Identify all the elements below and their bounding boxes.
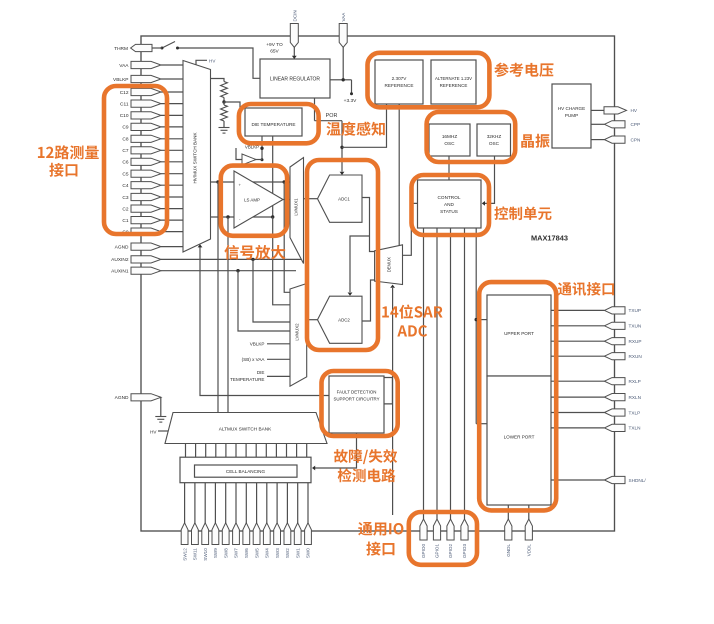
svg-text:32KHZ: 32KHZ: [487, 134, 502, 139]
wire buffer output: [256, 159, 262, 161]
svg-text:C2: C2: [122, 206, 128, 212]
pin CPP: [604, 121, 625, 128]
pin VDDL: [525, 519, 532, 540]
svg-text:+9V TO: +9V TO: [266, 42, 283, 48]
op-amp LS AMP: [234, 171, 283, 228]
pin DCIN: [290, 24, 298, 48]
svg-text:HV CHARGE: HV CHARGE: [558, 106, 585, 111]
wire DEMUX output to control: [403, 203, 418, 255]
wire tap to die temperature block: [224, 102, 240, 108]
block CELL BALANCING (outer): [180, 457, 311, 483]
block DIE TEMPERATURE: [245, 108, 302, 136]
label communication interface: [558, 282, 614, 296]
highlight communication ports: [479, 282, 556, 510]
pin SW3: [274, 523, 281, 545]
svg-text:OSC: OSC: [489, 141, 500, 146]
wire C10 to switch bank: [161, 114, 183, 116]
wire C6 to switch bank: [161, 161, 183, 163]
svg-text:THRM: THRM: [114, 46, 128, 52]
pin TXUP: [604, 307, 625, 314]
highlight die temperature: [239, 104, 319, 143]
linear regulator U2: [260, 59, 330, 98]
svg-text:TXLN: TXLN: [629, 426, 641, 431]
pin TXLN: [604, 424, 625, 431]
wire VBLKP input to LVMUX2: [267, 343, 290, 345]
wire control to GPIO1: [436, 228, 438, 519]
svg-text:SW7: SW7: [234, 548, 239, 558]
wire AUXIN1 to LVMUX: [161, 270, 296, 272]
wire ADC1 output to DEMUX: [362, 198, 375, 252]
svg-text:ALTMUX SWITCH BANK: ALTMUX SWITCH BANK: [219, 427, 272, 432]
pin VAA (top): [339, 24, 347, 48]
pin AGND: [131, 243, 161, 250]
wire VBLKP buffer rail: [261, 136, 263, 160]
label reference voltage: [494, 63, 553, 77]
wire LS amp output: [283, 199, 290, 201]
svg-text:C12: C12: [120, 90, 129, 96]
block CONTROL AND STATUS: [418, 180, 482, 228]
svg-text:SW9: SW9: [213, 548, 218, 558]
svg-text:PUMP: PUMP: [565, 113, 578, 118]
pin CPN: [604, 136, 625, 143]
pin GPIO1: [433, 519, 440, 540]
wire rail to ALTMUX bank (from + input): [217, 182, 219, 413]
label 14-bit SAR ADC: [382, 305, 442, 319]
wire THRM switch to linear regulator: [178, 48, 261, 78]
wire LVMUX1 to ADC1: [304, 198, 318, 200]
pin HV: [604, 107, 627, 114]
svg-text:(SB) x VAA: (SB) x VAA: [242, 357, 266, 362]
svg-text:LVMUX1: LVMUX1: [294, 198, 299, 216]
node ports rail junction: [475, 318, 478, 321]
wire C3 to switch bank: [161, 196, 183, 198]
wire 16MHz osc to control: [448, 156, 450, 180]
pin VAA top wire: [342, 47, 344, 80]
svg-text:C6: C6: [122, 160, 128, 166]
wire lower port to GNDL: [507, 505, 509, 519]
svg-text:TXUP: TXUP: [629, 308, 642, 313]
highlight fault detection: [322, 371, 398, 436]
svg-text:HV/MUX SWITCH BANK: HV/MUX SWITCH BANK: [193, 132, 198, 184]
pin C5: [131, 170, 161, 177]
wire lower port to VDDL: [528, 505, 530, 519]
wire port to TXLN: [551, 427, 604, 429]
svg-text:VDDL: VDDL: [526, 544, 531, 557]
svg-text:HV: HV: [209, 58, 216, 63]
svg-text:C3: C3: [122, 195, 128, 201]
label general IO interface: [358, 522, 403, 536]
svg-text:C8: C8: [122, 137, 128, 143]
adc ADC2: [318, 296, 363, 343]
svg-text:C5: C5: [122, 172, 128, 178]
pin SW10: [202, 523, 209, 545]
wire die temperature output rail: [272, 136, 274, 217]
label fault detection circuit: [334, 449, 397, 464]
svg-text:VBLKP: VBLKP: [250, 341, 265, 346]
pin AUXIN1: [131, 267, 161, 274]
svg-text:HV: HV: [631, 108, 638, 113]
pin C12: [131, 88, 161, 95]
wire port to TXUN: [551, 325, 604, 327]
svg-text:+3.3V: +3.3V: [344, 98, 357, 104]
wire branch to ADC2 input arrow: [350, 236, 370, 292]
svg-text:16MHZ: 16MHZ: [442, 134, 458, 139]
wire reference rail to DEMUX: [398, 104, 400, 245]
label control unit: [494, 206, 551, 220]
svg-text:REFERENCE: REFERENCE: [385, 83, 414, 88]
wire fault feedback to switch bank with up arrow: [200, 246, 329, 396]
svg-text:C11: C11: [120, 101, 129, 107]
svg-text:AGND: AGND: [115, 395, 129, 401]
pin DCIN wire with arrow into regulator: [293, 47, 295, 59]
svg-text:RXUP: RXUP: [629, 339, 642, 344]
svg-text:ADC2: ADC2: [338, 318, 350, 323]
pin RXUN: [604, 353, 625, 360]
svg-text:GNDL: GNDL: [506, 544, 511, 557]
svg-text:SW6: SW6: [244, 548, 249, 558]
label 12-channel measurement interface: [38, 145, 99, 159]
svg-text:STATUS: STATUS: [440, 209, 458, 214]
pin SW11: [192, 523, 199, 545]
svg-text:GPIO2: GPIO2: [448, 544, 453, 558]
highlight references: [368, 53, 490, 108]
node AUXIN2 branch: [251, 258, 254, 261]
svg-text:ALTERNATE 1.23V: ALTERNATE 1.23V: [435, 76, 472, 81]
wire C12 to switch bank: [161, 91, 183, 93]
wire LVMUX2 to ADC2: [307, 319, 318, 321]
wire AUXIN2 to LVMUX: [161, 258, 301, 260]
wire port to TXUP: [551, 309, 604, 311]
svg-text:GPIO0: GPIO0: [421, 544, 426, 558]
wire port to RXUN: [551, 355, 604, 357]
pin C8: [131, 135, 161, 142]
pin C2: [131, 205, 161, 212]
wire ADC2 output to DEMUX: [362, 280, 375, 321]
wire fault block right loop: [384, 378, 392, 404]
wire control to GPIO2: [450, 228, 452, 519]
svg-text:2.307V: 2.307V: [392, 76, 408, 81]
svg-text:VAA: VAA: [341, 12, 346, 22]
svg-text:REFERENCE: REFERENCE: [440, 83, 468, 88]
wire C11 to switch bank: [161, 103, 183, 105]
block HV CHARGE PUMP: [552, 84, 591, 148]
mux LVMUX1: [290, 158, 304, 264]
svg-text:CPN: CPN: [631, 137, 641, 142]
svg-text:DEMUX: DEMUX: [386, 257, 391, 272]
svg-text:C9: C9: [122, 125, 128, 131]
wire control to GPIO3: [464, 228, 466, 519]
svg-text:TXLP: TXLP: [629, 410, 641, 415]
adc ADC1: [318, 175, 363, 222]
svg-text:CELL BALANCING: CELL BALANCING: [226, 469, 266, 474]
pin C4: [131, 182, 161, 189]
svg-text:C10: C10: [120, 113, 129, 119]
wire buffer input: [236, 148, 242, 160]
chip boundary MAX17843: [141, 36, 615, 531]
svg-text:DIE TEMPERATURE: DIE TEMPERATURE: [251, 122, 295, 127]
wire port to SHDNL/: [551, 479, 604, 481]
wire C2 to switch bank: [161, 208, 183, 210]
wire rail to ALTMUX bank (from - input): [227, 217, 229, 413]
highlight control unit: [412, 175, 490, 235]
wire fault block to cell balancing with arrow: [315, 433, 357, 468]
block LOWER PORT: [487, 376, 551, 505]
mux DEMUX: [375, 245, 403, 285]
svg-text:MAX17843: MAX17843: [531, 234, 568, 243]
svg-text:RXUN: RXUN: [629, 354, 642, 359]
wire C5 to switch bank: [161, 173, 183, 175]
wire VBLKP to switch bank: [161, 78, 183, 80]
pin VAA: [131, 61, 161, 68]
reference block ALTERNATE 1.23V REFERENCE: [431, 60, 476, 104]
pin SW9: [212, 523, 219, 545]
svg-text:LINEAR REGULATOR: LINEAR REGULATOR: [270, 76, 320, 82]
svg-text:HV: HV: [150, 429, 157, 434]
label temperature sensing: [326, 122, 384, 136]
wire POR from regulator: [314, 98, 316, 121]
wire AGND to ground: [160, 397, 162, 416]
pin AUXIN2: [131, 256, 161, 263]
svg-text:FAULT DETECTION: FAULT DETECTION: [337, 389, 377, 394]
pin SW8: [222, 523, 229, 545]
wire AGND to switch bank: [161, 246, 183, 248]
wire C0 to switch bank: [161, 231, 183, 233]
wire regulator output +3.3V node: [330, 79, 343, 81]
wire charge pump to CPP pin: [591, 123, 604, 125]
svg-text:RXLP: RXLP: [629, 379, 641, 384]
pin SW6: [243, 523, 250, 545]
svg-text:DCIN: DCIN: [292, 10, 297, 21]
wire HV tab of switch bank: [196, 60, 207, 65]
block HV/MUX SWITCH BANK: [183, 61, 211, 253]
pin C10: [131, 112, 161, 119]
node resistor divider tap: [222, 100, 225, 103]
wire port to TXLP: [551, 412, 604, 414]
wire LS amp - input: [211, 216, 273, 218]
pin RXLN: [604, 394, 625, 401]
wire C1 to switch bank: [161, 219, 183, 221]
pin C3: [131, 193, 161, 200]
wire C7 to switch bank: [161, 149, 183, 151]
svg-text:SW3: SW3: [275, 548, 280, 558]
pin THRM: [131, 44, 152, 51]
highlight oscillators: [427, 112, 516, 162]
svg-text:CONTROL: CONTROL: [438, 195, 461, 200]
svg-text:SW4: SW4: [265, 548, 270, 558]
svg-text:DIE: DIE: [257, 370, 265, 375]
switch S1 on THRM line: [162, 42, 175, 49]
wire control to GPIO0: [423, 228, 425, 519]
svg-text:SW1: SW1: [295, 548, 300, 558]
resistor R1: [221, 82, 228, 98]
svg-text:GPIO3: GPIO3: [462, 544, 467, 558]
pin SW0: [305, 523, 312, 545]
label crystal oscillator: [521, 134, 549, 148]
svg-text:SW10: SW10: [203, 548, 208, 561]
wire charge pump to HV pin: [591, 109, 606, 111]
label signal amplification: [224, 245, 285, 260]
svg-text:AGND: AGND: [115, 244, 129, 250]
svg-text:SUPPORT CIRCUITRY: SUPPORT CIRCUITRY: [333, 396, 379, 401]
svg-text:LVMUX2: LVMUX2: [295, 323, 300, 341]
wire die temp rail into LVMUX2: [273, 217, 290, 305]
wire AUXIN1 branch into LVMUX2: [238, 271, 290, 331]
block FAULT DETECTION SUPPORT CIRCUITRY: [329, 376, 384, 433]
wire port to RXLP: [551, 380, 604, 382]
oscillator 32KHZ OSC: [477, 124, 511, 156]
svg-text:SW11: SW11: [193, 548, 198, 561]
svg-text:LS AMP: LS AMP: [244, 197, 260, 202]
block UPPER PORT: [487, 295, 551, 376]
wire control to ports rail: [475, 228, 477, 424]
wire DIE TEMPERATURE to LVMUX2: [267, 375, 290, 377]
pin C6: [131, 158, 161, 165]
svg-text:SW8: SW8: [223, 548, 228, 558]
highlight LS amp: [221, 166, 287, 236]
pin GPIO3: [461, 519, 468, 540]
wire C8 to switch bank: [161, 138, 183, 140]
svg-text:GPIO1: GPIO1: [435, 544, 440, 558]
pin C11: [131, 100, 161, 107]
pin C0: [131, 228, 161, 235]
wire C4 to switch bank: [161, 184, 183, 186]
pin SW1: [294, 523, 301, 545]
svg-text:SHDNL/: SHDNL/: [629, 478, 647, 483]
svg-text:AND: AND: [444, 202, 455, 207]
pin TXUN: [604, 322, 625, 329]
pin GNDL: [505, 519, 512, 540]
node AUXIN1 branch: [236, 269, 239, 272]
block ALTMUX SWITCH BANK: [165, 413, 327, 444]
pin SW7: [233, 523, 240, 545]
svg-text:UPPER PORT: UPPER PORT: [504, 331, 534, 336]
svg-text:TXUN: TXUN: [629, 324, 642, 329]
wire THRM to switch: [152, 47, 162, 49]
pin SW5: [253, 523, 260, 545]
pin RXLP: [604, 378, 625, 385]
svg-text:TEMPERATURE: TEMPERATURE: [230, 377, 264, 382]
pin C7: [131, 147, 161, 154]
wire port to RXLN: [551, 396, 604, 398]
svg-text:C7: C7: [122, 148, 128, 154]
svg-text:C4: C4: [122, 183, 128, 189]
pin AGND (lower): [131, 394, 161, 401]
wire port to RXUP: [551, 340, 604, 342]
wire rail to lower port: [476, 423, 487, 425]
wire AUXIN2 branch into LVMUX2: [253, 259, 290, 322]
svg-text:ADC1: ADC1: [338, 197, 350, 202]
ground (resistor divider): [219, 127, 230, 129]
ground (AGND): [155, 416, 166, 418]
svg-text:POR: POR: [326, 113, 338, 119]
highlight SAR ADC: [307, 160, 378, 350]
svg-text:SW2: SW2: [285, 548, 290, 558]
block CELL BALANCING (inner): [195, 465, 298, 477]
svg-text:OSC: OSC: [444, 141, 455, 146]
wire (SB) x VAA to LVMUX2: [267, 358, 290, 360]
wires ALTMUX to cell balancing (13): [185, 444, 187, 458]
pin SW2: [284, 523, 291, 545]
mux LVMUX2: [290, 284, 307, 387]
resistor R2: [223, 102, 225, 105]
svg-text:65V: 65V: [270, 49, 279, 55]
wire bank to resistor divider: [211, 79, 225, 82]
svg-text:VBLKP: VBLKP: [113, 77, 128, 83]
svg-text:VAA: VAA: [119, 63, 129, 69]
wire amp crossing rail into LVMUX2: [284, 182, 290, 292]
wire HV stub to ALTMUX: [158, 430, 169, 432]
buffer amplifier A2: [242, 154, 256, 165]
highlight 12-channel measurement pins: [104, 86, 167, 234]
pin TXLP: [604, 409, 625, 416]
wire VAA to switch bank: [161, 64, 183, 66]
wire C9 to switch bank: [161, 126, 183, 128]
svg-text:C1: C1: [122, 218, 128, 224]
wire reference to ADC1 arrow: [340, 172, 345, 175]
highlight GPIO: [409, 512, 477, 565]
pin C9: [131, 123, 161, 130]
wire rail to upper port: [476, 319, 487, 321]
wires cell balancing to SW pins (13): [184, 483, 186, 523]
svg-text:CPP: CPP: [631, 122, 641, 127]
wire charge pump to CPN pin: [591, 139, 604, 141]
pin SW12: [181, 523, 188, 545]
svg-text:RXLN: RXLN: [629, 395, 642, 400]
reference block 2.307V REFERENCE: [375, 60, 423, 104]
svg-text:LOWER PORT: LOWER PORT: [504, 435, 535, 440]
wire LS amp + input: [211, 181, 291, 183]
pin VBLKP: [131, 75, 161, 82]
oscillator 16MHZ OSC: [429, 124, 470, 156]
wire 32KHz osc to control with arrow: [485, 156, 495, 203]
pin SW4: [263, 523, 270, 545]
wire reference down-left rail: [342, 104, 387, 147]
svg-text:SW0: SW0: [306, 548, 311, 558]
pin GPIO2: [447, 519, 454, 540]
svg-text:AUXIN1: AUXIN1: [111, 269, 129, 275]
svg-text:AUXIN2: AUXIN2: [111, 257, 129, 263]
pin C1: [131, 217, 161, 224]
pin SHDNL/: [604, 476, 625, 483]
svg-text:SW12: SW12: [182, 548, 187, 561]
pin GPIO0: [420, 519, 427, 540]
pin RXUP: [604, 338, 625, 345]
svg-text:SW5: SW5: [254, 548, 259, 558]
wire DEMUX select from below with arrow: [392, 288, 394, 515]
